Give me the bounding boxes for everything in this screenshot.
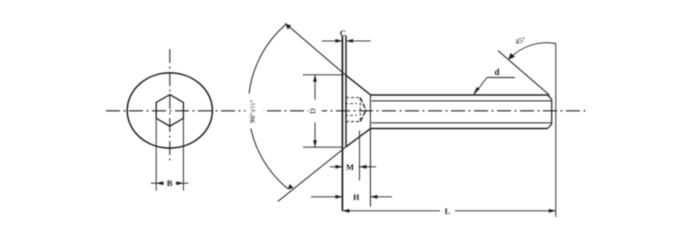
hex socket (end view) (156, 95, 183, 127)
end chamfer top (548, 95, 552, 99)
svg-text:d: d (494, 67, 499, 77)
head cone lower (346, 128, 371, 146)
C dimension line left (322, 40, 342, 42)
M arrow right (360, 165, 367, 169)
head face line (also C and L extension) (341, 36, 343, 212)
socket hidden inner line upper (345, 103, 357, 105)
L dimension line left part (342, 210, 440, 212)
svg-text:B: B (167, 178, 173, 188)
horizontal centerline (main axis) (106, 110, 588, 112)
svg-text:M: M (346, 162, 354, 172)
C dimension line right (346, 40, 371, 42)
socket cone point upper (360, 98, 366, 111)
end face (551, 99, 553, 124)
H arrow left (335, 195, 342, 199)
dimension B arrow right (176, 181, 183, 185)
45deg construction diagonal (498, 51, 550, 96)
vertical centerline of end view (169, 49, 171, 164)
dimension B line (151, 182, 164, 184)
svg-text:45°: 45° (514, 35, 527, 47)
shank bottom line (370, 128, 547, 130)
socket hidden line bottom wall (346, 121, 360, 123)
D arrow top (313, 75, 317, 82)
fan construction line upper (countersink angle) (285, 23, 346, 75)
socket bottom hidden line (359, 98, 361, 122)
fan angle arc (248, 25, 287, 189)
M dimension line right (359, 166, 376, 168)
head circle (end view) (127, 73, 212, 148)
D dimension extension tick top (303, 74, 342, 76)
end chamfer bottom (548, 124, 552, 128)
dimension B arrow left (156, 181, 163, 185)
thread root bottom (372, 122, 552, 124)
D arrow bottom (313, 140, 317, 147)
white backing for D label (309, 100, 322, 122)
H dimension line left (311, 196, 343, 198)
svg-text:H: H (353, 193, 360, 202)
socket cone point lower (360, 110, 366, 121)
d leader shelf (487, 77, 515, 79)
d leader diagonal (474, 78, 487, 95)
D dimension extension tick bottom (303, 146, 342, 148)
extension line from left hex flat (155, 118, 157, 190)
45deg arc (510, 43, 556, 59)
M arrow left (335, 165, 342, 169)
head face inner line (edge land) (345, 36, 347, 148)
L arrow left (342, 209, 349, 213)
svg-text:C: C (340, 28, 346, 38)
socket hidden line top wall (346, 97, 360, 99)
M extension line (socket depth) (359, 131, 361, 181)
extension line from right hex flat (182, 118, 184, 190)
svg-text:D: D (308, 108, 317, 114)
fan construction line lower (278, 147, 346, 202)
L arrow right (549, 209, 556, 213)
D dimension line (314, 75, 316, 147)
H dimension line right (370, 196, 392, 198)
M dimension line left (330, 166, 343, 168)
d leader arrow (474, 87, 480, 94)
45deg arc arrowhead (508, 53, 515, 60)
C arrow right (346, 39, 353, 43)
arc arrowhead bottom (288, 184, 294, 190)
right extension line (45deg and L) (555, 44, 557, 218)
shank top line (370, 94, 547, 96)
white backing for 90 deg label (246, 94, 263, 128)
thread root top (372, 100, 552, 102)
C arrow left (335, 39, 342, 43)
svg-text:90°±½°: 90°±½° (248, 100, 257, 123)
arc arrowhead top (285, 24, 291, 30)
cone-shank junction line (also H extension) (369, 95, 371, 207)
head cone upper (346, 75, 371, 95)
svg-text:L: L (445, 206, 451, 216)
socket hidden inner line lower (345, 114, 357, 116)
L dimension line right part (455, 210, 556, 212)
H arrow right (370, 195, 377, 199)
